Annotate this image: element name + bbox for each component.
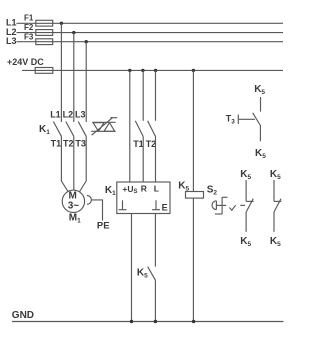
wire L2 to contact — [73, 33, 75, 122]
contact K5 NC bar (branch 2) — [274, 200, 281, 202]
rail L2 wire — [17, 32, 284, 34]
triac symbol (bypass semiconductor) — [91, 118, 117, 136]
wire K5 T3 branch bottom — [259, 126, 261, 142]
rail GND wire — [12, 321, 284, 323]
terminal T3 tick — [237, 115, 239, 125]
svg-text:F2: F2 — [24, 23, 34, 32]
device U1 box — [117, 182, 170, 214]
pin internal ground right — [152, 200, 160, 209]
svg-text:L: L — [154, 184, 159, 194]
contact K5 NO blade (T3 branch) — [253, 113, 261, 126]
wire contact T1 to R — [142, 137, 144, 183]
reset checkmark — [229, 205, 235, 210]
contact K1 pole 1 blade — [53, 122, 61, 137]
rail L1 wire — [17, 22, 284, 24]
node GND junction a — [130, 320, 133, 323]
wire T1 to motor — [61, 136, 68, 192]
svg-text:L3: L3 — [6, 36, 17, 46]
contact K5 NC blade (branch 2) — [274, 199, 281, 212]
wire box to GND left — [131, 214, 133, 322]
node 24V junction d — [192, 69, 195, 72]
svg-text:T2: T2 — [63, 138, 74, 148]
contact K5 NC blade (branch 1) — [246, 199, 253, 212]
wire 24V to contact T1 — [142, 70, 144, 120]
wire K5 T3 branch stub — [260, 97, 262, 112]
node 24V junction c — [154, 69, 157, 72]
node L3 junction — [85, 40, 88, 43]
svg-text:R: R — [141, 184, 147, 194]
wire K5 branch 2 top — [273, 180, 275, 201]
svg-text:+24V DC: +24V DC — [7, 57, 44, 67]
wire 24V to +Us — [129, 70, 131, 182]
svg-text:F1: F1 — [24, 13, 34, 22]
svg-text:L1: L1 — [50, 109, 61, 119]
contact K1 pole 3 blade — [78, 122, 86, 137]
node GND junction b — [154, 320, 157, 323]
pushbutton S2 actuator — [212, 197, 228, 214]
rail +24V DC wire — [22, 69, 283, 71]
contact T2 blade — [148, 121, 156, 137]
contact T1 blade — [135, 121, 143, 137]
wire 24V to contact T2 — [155, 70, 157, 120]
wire coil to GND — [192, 198, 194, 321]
svg-text:T1: T1 — [133, 139, 144, 149]
fuse F1 — [36, 20, 53, 26]
wire L1 to contact — [60, 23, 62, 122]
wire contact T2 to L — [155, 137, 157, 183]
wire motor to PE — [91, 200, 102, 221]
mechanical link dash — [240, 204, 245, 206]
contact K1 pole 2 blade — [66, 122, 74, 137]
fuse F2 — [36, 30, 53, 36]
svg-text:E: E — [162, 203, 168, 213]
svg-text:T1: T1 — [51, 138, 62, 148]
node L2 junction — [72, 31, 75, 34]
node L1 junction — [60, 22, 63, 25]
svg-text:F3: F3 — [24, 32, 34, 41]
wire K5 branch 2 bottom — [273, 212, 275, 232]
wire T2 to motor — [73, 136, 75, 190]
wire box E down — [154, 214, 156, 267]
node 24V junction b — [141, 69, 144, 72]
node GND junction c — [192, 320, 195, 323]
svg-text:T3: T3 — [75, 138, 86, 148]
svg-text:L3: L3 — [75, 109, 86, 119]
wire K5 branch 1 top — [245, 180, 247, 201]
pin internal ground left — [119, 200, 127, 209]
svg-text:PE: PE — [97, 220, 110, 231]
wire 24V to coil — [192, 70, 194, 191]
relay coil K5 — [186, 192, 204, 199]
svg-text:T2: T2 — [146, 139, 157, 149]
wire L3 to contact — [85, 42, 87, 122]
contact K5 (in E line) blade — [148, 267, 156, 281]
fuse F4 (24V) — [35, 68, 53, 74]
rail L3 wire — [17, 41, 284, 43]
contact K5 NC bar (branch 1) — [246, 200, 254, 202]
wire contact K5 to GND — [154, 280, 156, 321]
svg-text:L2: L2 — [63, 109, 74, 119]
node 24V junction a — [128, 69, 131, 72]
wire T3 to motor — [79, 136, 86, 192]
motor M1 — [62, 190, 84, 212]
motor PE terminal arc — [87, 196, 92, 205]
wire K5 branch 1 bottom — [245, 212, 247, 232]
wire T3 to contact — [238, 118, 255, 120]
fuse F3 — [36, 39, 53, 45]
svg-text:GND: GND — [12, 310, 34, 321]
svg-text:3~: 3~ — [68, 201, 80, 212]
